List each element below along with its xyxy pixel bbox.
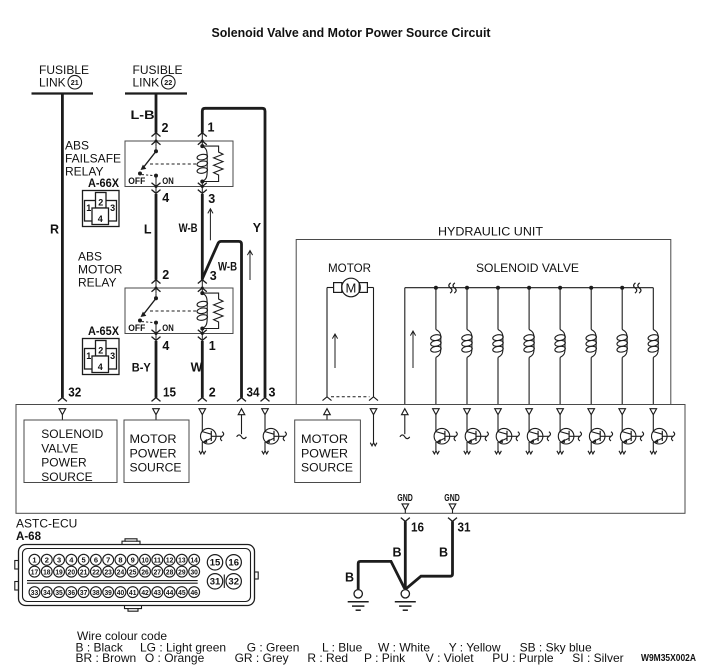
- solenoid valve power source block: [24, 420, 117, 483]
- connector pin 27: [152, 566, 163, 577]
- connector pin 3: [54, 554, 65, 565]
- connector pin 28: [164, 566, 175, 577]
- connector pin 29: [176, 566, 187, 577]
- svg-text:40: 40: [117, 588, 124, 597]
- relay switch: [154, 296, 158, 300]
- motor left wire to ECU: [327, 287, 334, 289]
- wire L from relay A-66X pin 4 to relay A-65X pin 2: [155, 194, 158, 280]
- svg-text:VALVE: VALVE: [41, 441, 78, 455]
- svg-text:W-B: W-B: [179, 221, 198, 235]
- ECU pin 3 connector triangle: [262, 409, 269, 415]
- svg-text:44: 44: [166, 588, 174, 597]
- transistor Q2 motor relay driver: [262, 415, 287, 454]
- transistor Q10 solenoid driver 8: [650, 415, 675, 454]
- hydraulic unit box: [296, 240, 671, 405]
- relay coil resistor: [202, 146, 223, 181]
- svg-text:21: 21: [71, 78, 79, 87]
- svg-text:RELAY: RELAY: [78, 276, 116, 290]
- svg-text:19: 19: [55, 567, 62, 576]
- ECU GND 16 connector triangle: [402, 504, 409, 510]
- svg-text:P : Pink: P : Pink: [364, 651, 406, 665]
- connector pin 4: [66, 554, 77, 565]
- connector pin 21: [78, 566, 89, 577]
- relay coil-side bottom connector: [201, 329, 203, 341]
- ECU solenoid driver connector triangle 6: [588, 409, 595, 415]
- svg-text:OFF: OFF: [128, 323, 145, 334]
- svg-text:ON: ON: [162, 323, 174, 334]
- svg-text:W-B: W-B: [218, 260, 237, 274]
- connector pin 16: [226, 555, 241, 570]
- wire B-Y from relay A-65X pin 4 to ECU pin 15: [155, 341, 158, 398]
- svg-text:1: 1: [208, 120, 215, 134]
- wire W from relay A-65X pin 1 to ECU pin 2: [201, 341, 204, 398]
- svg-text:ABS: ABS: [78, 250, 102, 264]
- svg-text:42: 42: [141, 588, 148, 597]
- connector pin 38: [90, 587, 101, 598]
- svg-text:SOURCE: SOURCE: [301, 461, 353, 475]
- svg-text:LINK: LINK: [133, 76, 160, 90]
- flow arrow beside W-B: [209, 209, 211, 241]
- relay box: [125, 288, 233, 334]
- svg-text:1: 1: [32, 556, 36, 565]
- connector pin 36: [66, 587, 77, 598]
- transistor Q1 solenoid power switch: [199, 415, 224, 454]
- svg-text:21: 21: [80, 567, 87, 576]
- solenoid bus feed wire to ECU: [404, 288, 406, 405]
- connector pin 43: [152, 587, 163, 598]
- svg-text:O : Orange: O : Orange: [145, 651, 205, 665]
- svg-text:MOTOR: MOTOR: [130, 432, 177, 446]
- svg-text:3: 3: [208, 192, 215, 206]
- svg-text:MOTOR: MOTOR: [301, 432, 348, 446]
- divider between pins 31 and 32: [223, 575, 225, 589]
- svg-text:1: 1: [86, 203, 91, 213]
- connector pin 17: [29, 566, 40, 577]
- relay U1 ABS failsafe relay A-66X: [125, 133, 233, 194]
- svg-text:31: 31: [458, 521, 471, 535]
- svg-text:28: 28: [166, 567, 173, 576]
- solenoid valve coil L3: [492, 286, 503, 405]
- svg-text:3: 3: [110, 203, 115, 213]
- wire L-B from fusible link 22 to relay A-66X pin 2: [155, 94, 158, 133]
- svg-text:32: 32: [68, 386, 81, 400]
- svg-text:15: 15: [210, 558, 221, 569]
- GND 16 wire fork: [401, 518, 410, 522]
- connector pin 10: [140, 554, 151, 565]
- ECU motor feed connector triangle: [324, 409, 331, 415]
- relay coil: [200, 144, 204, 148]
- motor M1: [334, 278, 368, 297]
- svg-text:SOLENOID VALVE: SOLENOID VALVE: [476, 261, 579, 275]
- connector pin 30: [189, 566, 200, 577]
- svg-text:A-66X: A-66X: [88, 176, 119, 190]
- ECU solenoid driver connector triangle 3: [495, 409, 502, 415]
- svg-text:2: 2: [45, 556, 49, 565]
- svg-text:16: 16: [228, 558, 239, 569]
- ECU solenoid driver connector triangle 2: [464, 409, 471, 415]
- relay switch: [154, 149, 158, 153]
- svg-text:M: M: [345, 280, 356, 295]
- ECU pin 15 connector triangle: [153, 409, 160, 415]
- svg-text:41: 41: [129, 588, 136, 597]
- bus break mark right: [634, 283, 637, 293]
- ECU solenoid driver connector triangle 8: [650, 409, 657, 415]
- svg-text:5: 5: [82, 556, 86, 565]
- solenoid valve coil L8: [648, 288, 659, 405]
- ground symbol middle: [395, 590, 416, 611]
- svg-text:POWER: POWER: [301, 446, 348, 460]
- svg-text:MOTOR: MOTOR: [78, 263, 123, 277]
- solenoid valve coil L7: [616, 286, 627, 405]
- ground wire B from pin 31: [406, 521, 453, 589]
- svg-text:GND: GND: [397, 493, 413, 504]
- svg-text:43: 43: [154, 588, 161, 597]
- svg-text:31: 31: [210, 577, 221, 588]
- connector pin 9: [127, 554, 138, 565]
- svg-text:SOLENOID: SOLENOID: [41, 427, 103, 441]
- connector pin 44: [164, 587, 175, 598]
- connector A-68 separator lines: [27, 580, 198, 582]
- svg-text:39: 39: [104, 588, 111, 597]
- connector A-68 body: [15, 539, 258, 611]
- relay actuation dashed line: [150, 310, 197, 312]
- transistor Q9 solenoid driver 7: [619, 415, 644, 454]
- connector pin 45: [176, 587, 187, 598]
- svg-text:A-68: A-68: [16, 529, 41, 543]
- flow arrow in solenoid feed: [412, 331, 414, 368]
- solenoid bus internal lead: [404, 415, 406, 434]
- relay box: [125, 141, 233, 187]
- ECU solenoid driver connector triangle 7: [619, 409, 626, 415]
- connector pin 46: [189, 587, 200, 598]
- connector pin 8: [115, 554, 126, 565]
- svg-text:3: 3: [57, 556, 61, 565]
- connector pin 20: [66, 566, 77, 577]
- svg-text:4: 4: [98, 362, 103, 372]
- connector pin 35: [54, 587, 65, 598]
- fusible link 22 circle: [162, 75, 176, 89]
- svg-text:BR : Brown: BR : Brown: [76, 651, 137, 665]
- connector pin 42: [140, 587, 151, 598]
- connector pin 18: [41, 566, 52, 577]
- transistor Q8 solenoid driver 6: [588, 415, 613, 454]
- relay switch-side bottom connector: [155, 182, 157, 194]
- svg-text:HYDRAULIC UNIT: HYDRAULIC UNIT: [438, 225, 544, 239]
- relay switch-side bottom connector: [155, 329, 157, 341]
- ECU pin 32 connector triangle: [59, 409, 66, 415]
- svg-text:2: 2: [98, 346, 103, 356]
- svg-text:ABS: ABS: [65, 139, 89, 153]
- solenoid valve coil L1: [430, 286, 441, 405]
- connector pin 31: [207, 574, 222, 589]
- connector pin 39: [103, 587, 114, 598]
- connector pin 6: [90, 554, 101, 565]
- svg-text:22: 22: [92, 567, 99, 576]
- svg-text:8: 8: [118, 556, 122, 565]
- svg-text:2: 2: [162, 268, 169, 282]
- svg-text:POWER: POWER: [130, 446, 177, 460]
- motor return internal lead: [373, 415, 375, 442]
- relay coil resistor: [202, 293, 223, 328]
- svg-text:22: 22: [164, 78, 172, 87]
- svg-text:36: 36: [68, 588, 75, 597]
- relay switch-side top connector: [155, 280, 157, 294]
- svg-text:2: 2: [98, 198, 103, 208]
- svg-text:27: 27: [154, 567, 161, 576]
- connector pin 14: [189, 554, 200, 565]
- connector pin 1: [29, 554, 40, 565]
- svg-text:W9M35X002A: W9M35X002A: [641, 653, 696, 664]
- svg-text:A-65X: A-65X: [88, 324, 119, 338]
- wire W-B branch to ECU pin 34: [202, 241, 241, 397]
- svg-text:20: 20: [68, 567, 75, 576]
- ground wire B to left earth: [358, 561, 404, 589]
- svg-text:11: 11: [154, 556, 161, 565]
- connector pin 41: [127, 587, 138, 598]
- connector A-66X pin layout diagram: [83, 191, 120, 227]
- relay switch-side top connector: [155, 133, 157, 147]
- wire Y horizontal from relay A-66X pin 1 to right branch: [202, 108, 265, 397]
- svg-text:L: L: [144, 222, 152, 236]
- transistor Q5 solenoid driver 3: [495, 415, 520, 454]
- flow arrow in motor branch: [334, 334, 336, 368]
- fusible link 21 bar: [32, 92, 94, 94]
- svg-text:16: 16: [411, 521, 424, 535]
- svg-text:4: 4: [162, 339, 169, 353]
- connector pin 12: [164, 554, 175, 565]
- bus break mark left: [449, 283, 452, 293]
- svg-text:37: 37: [80, 588, 87, 597]
- connector pin 40: [115, 587, 126, 598]
- svg-text:10: 10: [141, 556, 148, 565]
- relay coil: [200, 291, 204, 295]
- ECU solenoid driver connector triangle 5: [557, 409, 564, 415]
- svg-text:13: 13: [178, 556, 185, 565]
- relay U2 ABS motor relay A-65X: [125, 280, 233, 341]
- motor dashed return line: [331, 396, 370, 398]
- transistor Q6 solenoid driver 4: [526, 415, 551, 454]
- GND 31 wire fork: [448, 518, 457, 522]
- transistor Q4 solenoid driver 2: [464, 415, 489, 454]
- svg-text:FAILSAFE: FAILSAFE: [65, 152, 121, 166]
- svg-text:1: 1: [86, 351, 91, 361]
- svg-text:B: B: [439, 546, 448, 560]
- ECU GND 31 connector triangle: [449, 504, 456, 510]
- svg-text:4: 4: [98, 214, 103, 224]
- svg-text:LINK: LINK: [39, 76, 66, 90]
- svg-text:Solenoid Valve and Motor Power: Solenoid Valve and Motor Power Source Ci…: [212, 25, 492, 40]
- svg-text:3: 3: [110, 351, 115, 361]
- svg-text:26: 26: [141, 567, 148, 576]
- motor right wire to ECU: [367, 287, 373, 289]
- svg-text:17: 17: [31, 567, 38, 576]
- connector pin 25: [127, 566, 138, 577]
- connector pin 2: [41, 554, 52, 565]
- relay coil-side top connector: [201, 133, 203, 147]
- connector pin 15: [207, 555, 222, 570]
- ECU pin 2 connector triangle: [199, 409, 206, 415]
- svg-text:4: 4: [162, 191, 169, 205]
- ECU pin 34 connector triangle: [238, 409, 245, 415]
- connector pin 23: [103, 566, 114, 577]
- relay coil-side bottom connector: [201, 182, 203, 194]
- svg-text:38: 38: [92, 588, 99, 597]
- svg-text:14: 14: [190, 556, 198, 565]
- svg-text:1: 1: [209, 339, 216, 353]
- connector pin 24: [115, 566, 126, 577]
- svg-text:L-B: L-B: [131, 108, 155, 122]
- svg-text:SI : Silver: SI : Silver: [572, 651, 623, 665]
- ground wire B from pin 16: [404, 521, 407, 589]
- relay coil-side top connector: [201, 280, 203, 294]
- svg-text:45: 45: [178, 588, 185, 597]
- svg-text:30: 30: [190, 567, 197, 576]
- connector pin 32: [226, 574, 241, 589]
- svg-text:23: 23: [104, 567, 111, 576]
- connector pin 5: [78, 554, 89, 565]
- connector pin 33: [29, 587, 40, 598]
- svg-text:R : Red: R : Red: [307, 651, 348, 665]
- connector pin 34: [41, 587, 52, 598]
- ECU motor return connector triangle: [370, 409, 377, 415]
- svg-text:SOURCE: SOURCE: [130, 461, 182, 475]
- svg-text:29: 29: [178, 567, 185, 576]
- svg-text:15: 15: [163, 386, 176, 400]
- svg-text:35: 35: [55, 588, 62, 597]
- svg-text:12: 12: [166, 556, 173, 565]
- solenoid valve coil L2: [461, 286, 472, 405]
- svg-text:GND: GND: [444, 493, 460, 504]
- svg-text:POWER: POWER: [41, 456, 87, 470]
- ECU solenoid driver connector triangle 1: [433, 409, 440, 415]
- svg-text:7: 7: [106, 556, 110, 565]
- wire W-B from relay A-66X pin 3 to relay A-65X pin 3: [201, 194, 204, 280]
- connector pin 37: [78, 587, 89, 598]
- svg-text:OFF: OFF: [128, 176, 145, 187]
- motor power source block 2: [295, 420, 361, 483]
- svg-text:B: B: [393, 546, 402, 560]
- solenoid valve coil L6: [585, 286, 596, 405]
- svg-text:R: R: [50, 222, 59, 236]
- fusible link 21 circle: [68, 75, 82, 89]
- svg-text:2: 2: [162, 121, 169, 135]
- connector pin 13: [176, 554, 187, 565]
- svg-text:MOTOR: MOTOR: [328, 261, 371, 275]
- relay actuation dashed line: [150, 163, 197, 165]
- fusible link 22 bar: [125, 92, 187, 94]
- relay OFF-ON dashed link: [142, 321, 153, 324]
- ECU solenoid driver connector triangle 4: [526, 409, 533, 415]
- svg-text:24: 24: [117, 567, 125, 576]
- relay OFF-ON dashed link: [142, 174, 153, 177]
- connector pin 11: [152, 554, 163, 565]
- svg-text:V : Violet: V : Violet: [426, 651, 474, 665]
- svg-text:2: 2: [209, 386, 216, 400]
- solenoid valve coil L4: [523, 286, 534, 405]
- svg-text:18: 18: [43, 567, 50, 576]
- ASTC-ECU main box: [16, 405, 685, 514]
- svg-text:34: 34: [43, 588, 51, 597]
- svg-text:6: 6: [94, 556, 98, 565]
- connector pin 22: [90, 566, 101, 577]
- solenoid supply bus: [405, 287, 654, 289]
- ECU solenoid bus connector triangle: [402, 409, 409, 415]
- motor power source block 1: [124, 420, 189, 483]
- svg-text:B-Y: B-Y: [132, 361, 151, 375]
- ground symbol left: [348, 590, 369, 611]
- svg-text:9: 9: [131, 556, 135, 565]
- svg-text:33: 33: [31, 588, 38, 597]
- svg-text:3: 3: [269, 386, 276, 400]
- wire R from fusible link 21 to ECU pin 32: [61, 94, 64, 398]
- svg-text:GR : Grey: GR : Grey: [235, 651, 289, 665]
- svg-text:46: 46: [190, 588, 197, 597]
- transistor Q3 solenoid driver 1: [433, 415, 458, 454]
- svg-text:B: B: [345, 571, 354, 585]
- svg-text:SOURCE: SOURCE: [41, 470, 92, 484]
- solenoid valve coil L5: [554, 286, 565, 405]
- flow arrow beside Y branch: [249, 251, 251, 281]
- connector pin 26: [140, 566, 151, 577]
- svg-text:W: W: [191, 361, 203, 375]
- svg-text:3: 3: [210, 269, 217, 283]
- svg-text:25: 25: [129, 567, 136, 576]
- svg-text:34: 34: [247, 386, 260, 400]
- pin 34 internal lead: [241, 415, 243, 434]
- connector pin 19: [54, 566, 65, 577]
- transistor Q7 solenoid driver 5: [557, 415, 582, 454]
- svg-text:ON: ON: [162, 176, 174, 187]
- connector pin 7: [103, 554, 114, 565]
- connector A-65X pin layout diagram: [83, 339, 120, 375]
- svg-text:Y: Y: [253, 221, 262, 235]
- svg-text:PU : Purple: PU : Purple: [492, 651, 554, 665]
- svg-text:32: 32: [228, 577, 239, 588]
